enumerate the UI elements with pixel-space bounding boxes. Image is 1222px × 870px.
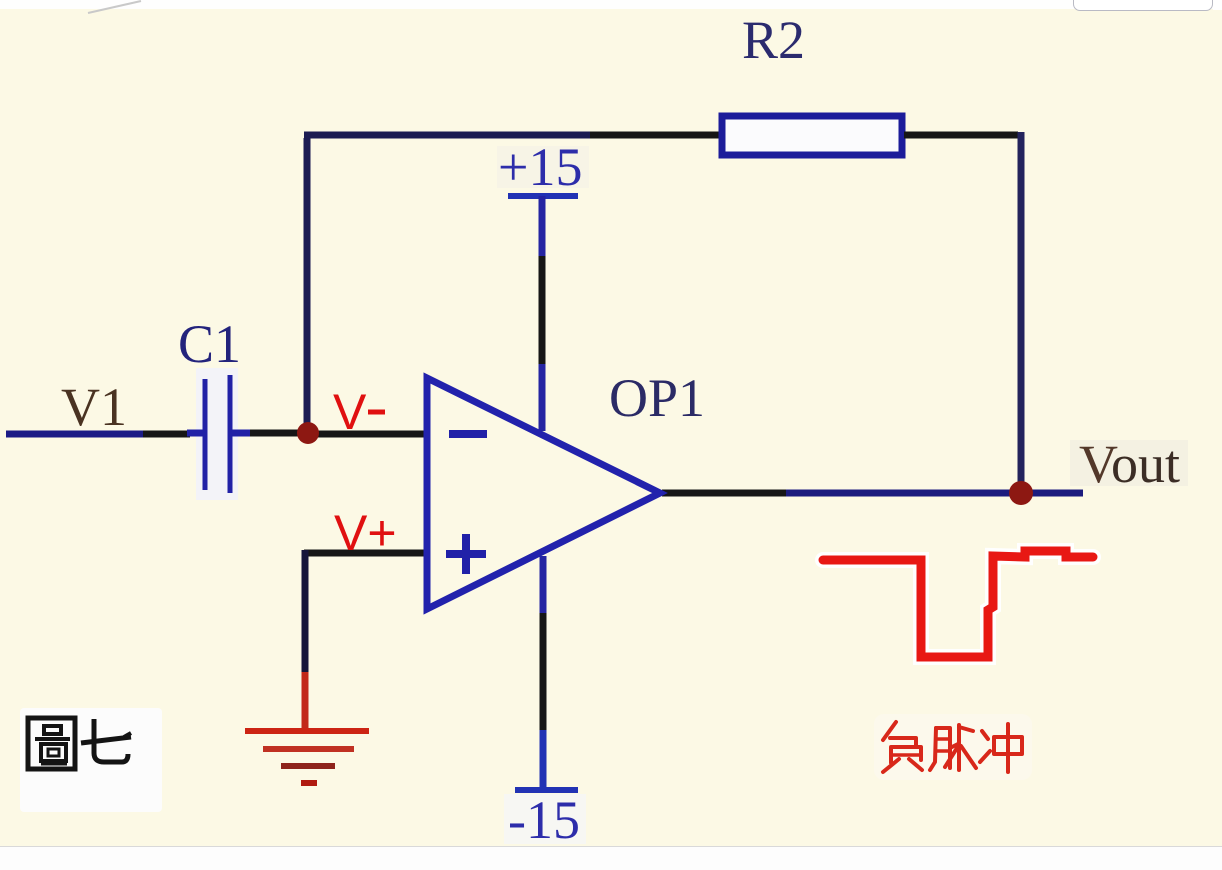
svg-text:R2: R2: [742, 10, 805, 70]
svg-text:V: V: [333, 384, 367, 440]
svg-text:OP1: OP1: [609, 368, 705, 428]
svg-text:V+: V+: [334, 505, 397, 561]
svg-text:C1: C1: [178, 314, 241, 374]
svg-text:+15: +15: [498, 137, 582, 197]
svg-text:Vout: Vout: [1079, 434, 1180, 494]
svg-text:V1: V1: [61, 377, 127, 437]
svg-text:-15: -15: [508, 790, 580, 850]
